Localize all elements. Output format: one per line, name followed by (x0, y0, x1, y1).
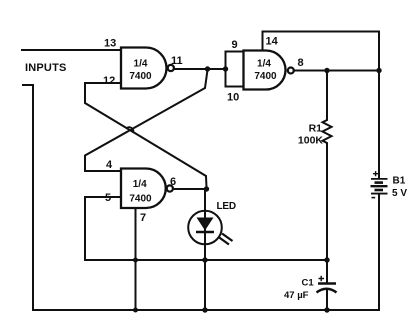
wire LED branch vertical (204, 189, 206, 310)
wire input lower stub + left ground rail (23, 85, 33, 310)
wire pin 7 to bottom rail (135, 208, 137, 310)
node C1 top junction (324, 257, 329, 262)
svg-text:1/4: 1/4 (257, 59, 271, 70)
wire pin 5 down and ground rail mid (85, 197, 327, 260)
wire input top to pin 13 (22, 49, 121, 51)
svg-text:12: 12 (103, 75, 115, 87)
svg-text:1/4: 1/4 (133, 179, 147, 190)
svg-text:R1: R1 (309, 123, 323, 135)
svg-text:11: 11 (171, 55, 183, 67)
node LED mid-rail junction (202, 257, 207, 262)
svg-text:13: 13 (104, 38, 116, 50)
svg-text:B1: B1 (393, 176, 406, 187)
wire gate C input bracket pins 9 and 10 (226, 52, 244, 87)
svg-text:14: 14 (266, 36, 279, 48)
svg-text:8: 8 (298, 57, 304, 69)
svg-text:7400: 7400 (129, 194, 152, 205)
svg-text:7: 7 (140, 212, 146, 224)
node out6 junction (204, 186, 209, 191)
svg-text:C1: C1 (302, 278, 315, 289)
node LED bottom junction (202, 307, 207, 312)
node gate C input junction (223, 66, 228, 71)
node C1 bottom junction (324, 307, 329, 312)
node out11 junction (205, 66, 210, 71)
op-amp U2 : NAND gate B body (121, 169, 173, 209)
svg-text:5 V: 5 V (392, 188, 407, 199)
svg-text:7400: 7400 (254, 71, 277, 82)
wire pin 12 to output 6 junction (diagonal) (85, 83, 207, 188)
svg-text:6: 6 (170, 176, 176, 188)
op-amp U1 : NAND gate A body (121, 48, 174, 89)
wire crossover hop (127, 127, 134, 132)
wire gate C output 8 to right rail (294, 70, 379, 72)
wire battery bottom to bottom-right corner (378, 195, 380, 311)
node pin7 bottom junction (133, 308, 138, 313)
wire pin 14 up, top rail, right rail to battery (263, 32, 380, 178)
svg-text:5: 5 (105, 192, 111, 204)
svg-text:10: 10 (227, 92, 239, 104)
op-amp U3 : NAND gate C body (244, 51, 294, 90)
wire gate A output to gate C input bracket (174, 68, 226, 70)
resistor R1 (323, 71, 332, 261)
wire bottom rail (33, 309, 378, 311)
svg-text:7400: 7400 (129, 71, 152, 82)
node right rail junction (376, 68, 381, 73)
svg-text:1/4: 1/4 (134, 59, 148, 70)
node junction dots (133, 66, 382, 312)
capacitor C1 (317, 260, 337, 310)
svg-text:47 µF: 47 µF (284, 290, 309, 301)
svg-text:9: 9 (232, 39, 238, 51)
wire gate B output to LED junction (173, 188, 207, 190)
node R1 top junction (324, 68, 329, 73)
svg-text:100K: 100K (298, 135, 324, 147)
svg-text:INPUTS: INPUTS (25, 62, 67, 74)
node pin7 mid-rail junction (133, 258, 138, 263)
svg-text:LED: LED (217, 201, 236, 212)
svg-text:4: 4 (106, 159, 113, 171)
LED (188, 189, 232, 245)
wire feedback output 11 to pin 4 (diagonal) (85, 70, 208, 171)
battery B1 (371, 171, 388, 198)
